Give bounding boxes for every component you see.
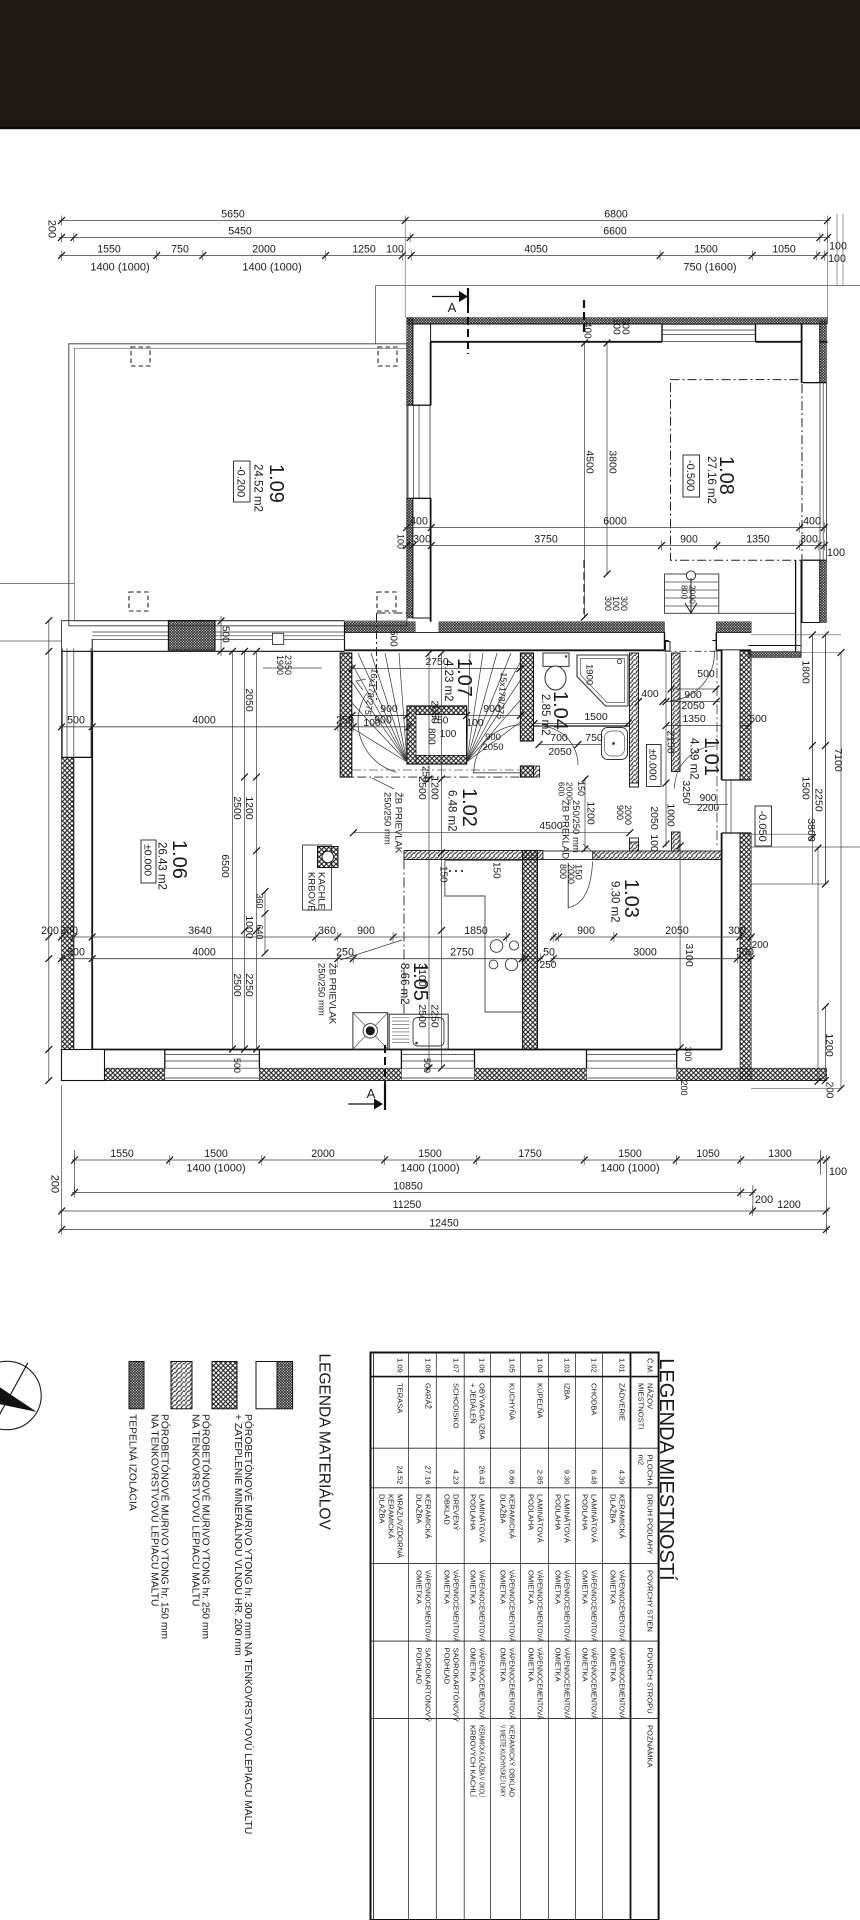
svg-text:OMIETKA: OMIETKA: [442, 1570, 451, 1605]
svg-text:1200: 1200: [585, 801, 597, 825]
fireplace stove: [318, 847, 339, 868]
stair door to 1.02 arc: [474, 725, 520, 773]
svg-text:1.05: 1.05: [508, 1358, 517, 1373]
compass needle line: [0, 1363, 28, 1421]
stairwell east wall upper: [520, 653, 533, 741]
south chain row2 500 4000 250 2750 50 250: [59, 958, 543, 960]
svg-text:400: 400: [410, 515, 428, 527]
svg-text:1.01: 1.01: [700, 737, 722, 776]
svg-text:1.08: 1.08: [423, 1358, 432, 1373]
garage carport dash-dot outline: [671, 380, 803, 561]
svg-text:KERAMICKÁ DLAŽBA V OKOLÍ: KERAMICKÁ DLAŽBA V OKOLÍ: [477, 1725, 486, 1798]
svg-text:KRBOVÝCH KACHLÍ: KRBOVÝCH KACHLÍ: [468, 1725, 477, 1798]
svg-text:9.30 m2: 9.30 m2: [608, 881, 620, 923]
svg-text:VÁPENNOCEMENTOVÁ: VÁPENNOCEMENTOVÁ: [508, 1570, 517, 1643]
basin nook door arc: [539, 726, 578, 765]
stairwell west wall: [340, 653, 352, 777]
svg-text:-0.200: -0.200: [235, 466, 247, 497]
svg-text:2050: 2050: [429, 700, 441, 724]
svg-text:1.04: 1.04: [549, 691, 571, 730]
svg-text:7100: 7100: [832, 748, 844, 772]
entry steps treads: [665, 574, 719, 613]
svg-text:OMIETKA: OMIETKA: [468, 1648, 477, 1683]
svg-text:1400 (1000): 1400 (1000): [90, 262, 149, 274]
svg-text:4050: 4050: [524, 243, 548, 255]
svg-text:LAMINÁTOVÁ: LAMINÁTOVÁ: [477, 1494, 486, 1544]
svg-text:900: 900: [357, 925, 375, 937]
svg-text:VÁPENNOCEMENTOVÁ: VÁPENNOCEMENTOVÁ: [423, 1570, 432, 1643]
stair treads right fan: [467, 653, 470, 762]
svg-text:9.30: 9.30: [563, 1470, 572, 1485]
garage east wall masonry: [802, 324, 820, 383]
washbasin: [602, 728, 628, 760]
svg-text:KERAMICKÁ: KERAMICKÁ: [423, 1494, 432, 1540]
svg-text:300: 300: [728, 925, 746, 937]
partition 1.04 south: [534, 726, 630, 731]
top dimension chain row3 1550 750 2000 1250 100 4050 1500 1050 100: [59, 255, 827, 257]
svg-text:m2: m2: [637, 1455, 646, 1466]
NW corner edge lines: [61, 621, 63, 649]
svg-text:±0.000: ±0.000: [647, 749, 659, 781]
svg-text:100: 100: [395, 534, 405, 549]
svg-text:NA TENKOVRSTVOVÚ LEPIACU MALTU: NA TENKOVRSTVOVÚ LEPIACU MALTU: [189, 1414, 202, 1606]
svg-text:VÁPENNOCEMENTOVÁ: VÁPENNOCEMENTOVÁ: [589, 1570, 598, 1643]
svg-text:VÁPENNOCEMENTOVÁ: VÁPENNOCEMENTOVÁ: [618, 1570, 627, 1643]
svg-text:750: 750: [171, 243, 189, 255]
partition 1.02/1.03: [593, 851, 722, 860]
svg-text:1.06: 1.06: [168, 840, 190, 879]
svg-text:6500: 6500: [219, 854, 231, 878]
svg-text:-0.500: -0.500: [684, 460, 696, 491]
svg-text:150: 150: [490, 862, 501, 879]
svg-text:MIESTNOSTI: MIESTNOSTI: [637, 1383, 646, 1429]
right edge connectors: [751, 634, 841, 636]
svg-text:A: A: [367, 1086, 376, 1101]
svg-text:500: 500: [67, 947, 85, 959]
south wall SW corner block: [62, 1050, 105, 1081]
stair walking line arc: [358, 692, 396, 772]
terrace post bottom-right: [377, 592, 396, 611]
svg-text:100: 100: [829, 1166, 847, 1178]
svg-text:OMIETKA: OMIETKA: [609, 1570, 618, 1605]
material swatch 1 wall+insulation: [256, 1362, 277, 1409]
bottom chain row2 10850 200: [72, 1192, 755, 1194]
svg-text:KERAMICKÝ OBKLAD: KERAMICKÝ OBKLAD: [508, 1725, 517, 1797]
garage north wall insulation: [407, 318, 828, 324]
svg-text:GARÁŽ: GARÁŽ: [423, 1383, 432, 1410]
svg-text:1.07: 1.07: [453, 658, 475, 697]
entry steps walk arrow: [690, 578, 692, 612]
svg-text:6.48: 6.48: [589, 1470, 598, 1485]
garage interior vertical dim 4500: [584, 342, 586, 619]
porch level box -0.050: [755, 806, 772, 846]
V2 dim lines: [441, 653, 443, 1068]
east wall insulation: [740, 652, 751, 781]
svg-text:V MIESTE KUCHYNSKEJ LINKY: V MIESTE KUCHYNSKEJ LINKY: [499, 1725, 508, 1797]
svg-text:POVRCH STROPU: POVRCH STROPU: [646, 1648, 655, 1714]
east wall entry door opening: [722, 779, 752, 781]
svg-text:IZBA: IZBA: [563, 1383, 572, 1401]
svg-text:OMIETKA: OMIETKA: [414, 1570, 423, 1605]
svg-text:OMIETKA: OMIETKA: [609, 1648, 618, 1683]
svg-text:6000: 6000: [603, 515, 627, 527]
entry door dashed sill: [665, 650, 717, 652]
svg-text:100: 100: [466, 717, 484, 729]
svg-text:3100: 3100: [683, 943, 695, 967]
svg-text:360: 360: [318, 925, 336, 937]
svg-text:OMIETKA: OMIETKA: [499, 1570, 508, 1605]
svg-text:4000: 4000: [192, 947, 216, 959]
svg-text:OMIETKA: OMIETKA: [580, 1570, 589, 1605]
svg-text:300: 300: [619, 318, 630, 335]
entry landing column circle: [686, 571, 695, 580]
svg-text:3800: 3800: [805, 818, 817, 842]
svg-text:100: 100: [386, 243, 404, 255]
svg-text:CHODBA: CHODBA: [589, 1383, 598, 1416]
fireplace label box: [303, 845, 332, 910]
svg-text:200: 200: [755, 1194, 773, 1206]
terrace post bottom-left: [129, 592, 148, 611]
svg-text:150: 150: [437, 866, 448, 883]
svg-text:1200: 1200: [243, 796, 255, 820]
svg-text:5650: 5650: [221, 208, 245, 220]
svg-text:2250: 2250: [429, 1004, 441, 1028]
svg-text:1350: 1350: [746, 533, 770, 545]
material swatch 3 ytong 150: [171, 1362, 192, 1409]
svg-text:SADROKARTÓNOVÝ: SADROKARTÓNOVÝ: [423, 1648, 432, 1723]
bottom chain row4 12450: [59, 1229, 829, 1231]
bottom chain row3 11250 1200: [59, 1210, 829, 1212]
svg-text:11250: 11250: [393, 1199, 422, 1211]
svg-text:200: 200: [679, 1080, 689, 1095]
garage interior chain 400 6000 400: [404, 527, 827, 529]
svg-text:MRAZUVZDORNÁ: MRAZUVZDORNÁ: [395, 1494, 404, 1559]
svg-text:PODHĽAD: PODHĽAD: [414, 1648, 423, 1685]
svg-text:1550: 1550: [97, 243, 121, 255]
svg-text:1400 (1000): 1400 (1000): [186, 1163, 245, 1175]
svg-text:PODLAHA: PODLAHA: [554, 1494, 563, 1531]
svg-text:500: 500: [697, 668, 715, 680]
svg-text:KERAMICKÁ: KERAMICKÁ: [508, 1494, 517, 1540]
svg-text:VÁPENNOCEMENTOVÁ: VÁPENNOCEMENTOVÁ: [618, 1648, 627, 1721]
svg-text:24.52 m2: 24.52 m2: [251, 464, 263, 512]
svg-text:2000: 2000: [311, 1148, 335, 1160]
top dimension chain row2 200 5450 6600 100: [59, 237, 830, 239]
wall 1.01 west lower stub: [672, 832, 681, 851]
dark header band: [0, 0, 860, 129]
svg-text:2350: 2350: [283, 655, 293, 675]
svg-text:1.03: 1.03: [563, 1358, 572, 1373]
section A-A trace in garage: [583, 300, 585, 336]
svg-text:OBKLAD: OBKLAD: [442, 1494, 451, 1525]
garage level box -0.500: [683, 455, 700, 497]
svg-text:OMIETKA: OMIETKA: [468, 1570, 477, 1605]
south window 1 sill lines: [165, 1054, 260, 1056]
shower tray: [577, 655, 628, 706]
terrace level box -0.200: [234, 461, 251, 502]
svg-text:2000: 2000: [623, 805, 633, 825]
svg-text:1550: 1550: [110, 1148, 134, 1160]
svg-text:POZNÁMKA: POZNÁMKA: [646, 1725, 655, 1769]
svg-text:150: 150: [576, 781, 586, 796]
svg-text:2150: 2150: [665, 730, 677, 754]
svg-text:Č.M.: Č.M.: [646, 1358, 655, 1374]
svg-text:VÁPENNOCEMENTOVÁ: VÁPENNOCEMENTOVÁ: [536, 1648, 545, 1721]
svg-text:NÁZOV: NÁZOV: [646, 1383, 655, 1410]
svg-text:OMIETKA: OMIETKA: [499, 1648, 508, 1683]
svg-text:KUCHYŇA: KUCHYŇA: [508, 1383, 517, 1421]
kitchen counter dots: [449, 870, 451, 872]
kitchen dash-dot beam west: [403, 860, 405, 1050]
svg-text:KERAMICKÁ: KERAMICKÁ: [386, 1494, 395, 1540]
svg-text:300: 300: [60, 925, 78, 937]
1.01 interior dim line 2150 1000 100: [665, 653, 667, 847]
south wall masonry band: [105, 1050, 165, 1069]
level box 1.06: [141, 840, 156, 883]
section mark A bottom: [348, 1103, 380, 1105]
right chains 1800 1500 2250 7100 3800 1200 200: [811, 635, 813, 838]
site boundary line top right: [375, 286, 377, 344]
svg-text:150: 150: [573, 864, 584, 880]
compass circle: [0, 1361, 41, 1429]
interior chain row 500 4000 250 900: [59, 726, 411, 728]
svg-text:2.85 m2: 2.85 m2: [539, 694, 551, 736]
svg-text:2000: 2000: [687, 585, 697, 604]
kitchen counter: [445, 860, 523, 1012]
svg-text:1500: 1500: [418, 1148, 442, 1160]
house north wall insulation band: [345, 622, 416, 633]
svg-text:DLAŽBA: DLAŽBA: [609, 1494, 618, 1524]
section trace dash-dot jog: [377, 612, 414, 614]
west wall insulation: [62, 757, 74, 1068]
svg-text:KRBOVÉ: KRBOVÉ: [306, 872, 317, 912]
dim 1200 vertical near 1.02: [584, 778, 586, 851]
svg-text:2050: 2050: [482, 742, 503, 753]
svg-text:1500: 1500: [694, 243, 718, 255]
svg-text:1500: 1500: [204, 1148, 228, 1160]
svg-text:VÁPENNOCEMENTOVÁ: VÁPENNOCEMENTOVÁ: [589, 1648, 598, 1721]
level box +-0.000: [647, 745, 662, 787]
svg-text:100: 100: [827, 547, 845, 559]
svg-text:2.85: 2.85: [536, 1470, 545, 1485]
svg-text:1.03: 1.03: [620, 879, 642, 918]
svg-text:4500: 4500: [539, 820, 563, 832]
svg-text:LAMINÁTOVÁ: LAMINÁTOVÁ: [536, 1494, 545, 1544]
svg-text:1.08: 1.08: [715, 456, 737, 495]
svg-text:700: 700: [550, 732, 568, 744]
property line west upper: [0, 583, 74, 585]
svg-text:300: 300: [413, 533, 431, 545]
svg-text:1.06: 1.06: [477, 1358, 486, 1373]
svg-text:OMIETKA: OMIETKA: [554, 1570, 563, 1605]
svg-text:1300: 1300: [768, 1148, 792, 1160]
svg-text:VÁPENNOCEMENTOVÁ: VÁPENNOCEMENTOVÁ: [563, 1570, 572, 1643]
svg-text:2000: 2000: [564, 782, 574, 801]
svg-text:6.48 m2: 6.48 m2: [445, 790, 457, 832]
svg-text:27.16 m2: 27.16 m2: [705, 456, 717, 504]
west wall masonry: [74, 757, 92, 1068]
material swatch 4 insulation: [129, 1362, 144, 1409]
bottom chain right extensions: [752, 1185, 754, 1214]
svg-text:ŽB PREKLAD: ŽB PREKLAD: [560, 800, 571, 859]
bathroom nook wall stub: [534, 766, 540, 777]
entry door swing arc: [670, 651, 715, 701]
svg-text:NA TENKOVRSTVOVÚ LEPIACU MALTU: NA TENKOVRSTVOVÚ LEPIACU MALTU: [148, 1414, 161, 1606]
porch wall strip north: [749, 652, 802, 658]
svg-text:PLOCHA: PLOCHA: [646, 1455, 655, 1487]
svg-text:LAMINÁTOVÁ: LAMINÁTOVÁ: [589, 1494, 598, 1544]
svg-text:900: 900: [374, 715, 392, 727]
svg-text:3750: 3750: [534, 533, 558, 545]
svg-text:2500: 2500: [231, 973, 243, 997]
entry door small dim 500: [670, 688, 718, 690]
svg-text:4.23: 4.23: [451, 1470, 460, 1485]
south chain row1 200 300 3640 360 900 1850: [59, 936, 509, 938]
svg-text:6800: 6800: [604, 208, 628, 220]
svg-text:2050: 2050: [548, 746, 572, 758]
kitchen load bearing wall 250: [523, 851, 538, 1050]
WC bowl: [545, 666, 566, 690]
kitchen dishwasher square: [353, 1013, 388, 1049]
svg-text:1500: 1500: [584, 711, 608, 723]
svg-text:VÁPENNOCEMENTOVÁ: VÁPENNOCEMENTOVÁ: [508, 1648, 517, 1721]
east wall masonry: [722, 650, 740, 780]
partition 1.04/1.01 vertical: [630, 653, 639, 787]
svg-text:KÚPEĽŇA: KÚPEĽŇA: [536, 1383, 545, 1419]
svg-text:900: 900: [577, 925, 595, 937]
svg-text:2050: 2050: [648, 806, 660, 830]
svg-text:24.52: 24.52: [395, 1465, 404, 1484]
garage east window: [819, 383, 821, 561]
svg-text:3800: 3800: [607, 450, 619, 474]
partition 1.02/1.01 vertical: [672, 653, 681, 772]
svg-text:500: 500: [736, 947, 754, 959]
north wall vent square: [273, 633, 284, 644]
svg-text:800: 800: [425, 728, 436, 745]
svg-text:ZÁDVERIE: ZÁDVERIE: [618, 1383, 627, 1421]
svg-text:OBÝVACIA IZBA: OBÝVACIA IZBA: [477, 1383, 486, 1441]
svg-text:3640: 3640: [188, 925, 212, 937]
svg-text:1200: 1200: [823, 1033, 835, 1057]
svg-text:26.43 m2: 26.43 m2: [155, 842, 167, 890]
left edge vertical chain: [48, 621, 50, 1081]
north glazed wall west segment: [61, 620, 344, 622]
property line west lower: [0, 640, 61, 642]
material swatch 2 ytong 250: [212, 1362, 237, 1409]
west wall window: [62, 648, 64, 757]
svg-text:1500: 1500: [618, 1148, 642, 1160]
terrace 1.09 outer edge: [69, 344, 407, 626]
V1 line 2500 6500: [244, 651, 246, 1049]
svg-text:DLAŽBA: DLAŽBA: [377, 1494, 386, 1524]
svg-text:PODLAHA: PODLAHA: [527, 1494, 536, 1531]
svg-text:ŽB PRIEVLAK: ŽB PRIEVLAK: [327, 963, 338, 1025]
svg-text:1350: 1350: [682, 713, 706, 725]
dim extension top right: [836, 214, 838, 286]
svg-text:1.04: 1.04: [536, 1358, 545, 1373]
svg-text:VÁPENNOCEMENTOVÁ: VÁPENNOCEMENTOVÁ: [451, 1570, 460, 1643]
svg-text:1.01: 1.01: [618, 1358, 627, 1373]
svg-text:5450: 5450: [228, 225, 252, 237]
kitchen hob circles: [490, 940, 503, 953]
section mark A top: [432, 296, 466, 298]
compass needle black: [0, 1387, 37, 1412]
svg-text:8.66: 8.66: [508, 1470, 517, 1485]
svg-text:100: 100: [648, 834, 660, 852]
svg-text:A: A: [448, 300, 457, 315]
svg-text:VÁPENNOCEMENTOVÁ: VÁPENNOCEMENTOVÁ: [536, 1570, 545, 1643]
svg-text:SCHODISKO: SCHODISKO: [451, 1383, 460, 1429]
svg-text:200: 200: [752, 940, 769, 951]
svg-text:1850: 1850: [464, 925, 488, 937]
terrace post top-right: [378, 347, 397, 366]
bottom chain left vertical: [61, 1085, 63, 1232]
svg-text:300: 300: [800, 533, 818, 545]
svg-text:2250: 2250: [243, 973, 255, 997]
svg-text:750 (1600): 750 (1600): [683, 262, 736, 274]
svg-text:1400 (1000): 1400 (1000): [400, 1163, 459, 1175]
svg-text:SADROKARTÓNOVÝ: SADROKARTÓNOVÝ: [451, 1648, 460, 1723]
entry door recess jambs: [664, 632, 666, 650]
south wall insulation band: [62, 1068, 165, 1080]
svg-text:DREVENÝ: DREVENÝ: [451, 1494, 460, 1531]
interior chain row2 pieces: [352, 715, 407, 717]
svg-text:250/250 mm: 250/250 mm: [570, 800, 581, 853]
svg-text:ŽB PRIEVLAK: ŽB PRIEVLAK: [393, 792, 404, 854]
svg-text:300: 300: [683, 1046, 693, 1061]
table grid: [371, 1353, 659, 1920]
garage north wall masonry: [413, 324, 431, 342]
svg-text:900: 900: [380, 703, 398, 715]
svg-text:±0.000: ±0.000: [142, 844, 154, 876]
svg-text:500: 500: [67, 715, 85, 727]
porch wall east line: [795, 560, 797, 651]
svg-text:TERASA: TERASA: [395, 1383, 404, 1414]
svg-text:3000: 3000: [633, 947, 657, 959]
svg-text:1.07: 1.07: [451, 1358, 460, 1373]
svg-text:+ ZATEPLENIE MINERÁLNOU VLNOU: + ZATEPLENIE MINERÁLNOU VLNOU HR. 200 mm: [232, 1414, 245, 1656]
south chain row1 east 900 2050 300: [551, 936, 754, 938]
svg-text:1250: 1250: [352, 243, 376, 255]
svg-text:26.43: 26.43: [477, 1465, 486, 1484]
door 1.02-1.01 jambs and labels: [630, 783, 639, 787]
svg-text:2500: 2500: [231, 796, 243, 820]
garage east wall insulation: [820, 321, 827, 383]
kitchen sink unit: [389, 1014, 448, 1049]
svg-text:250: 250: [540, 960, 557, 971]
svg-text:2500: 2500: [416, 776, 428, 800]
svg-text:OMIETKA: OMIETKA: [580, 1648, 589, 1683]
garage west window 1500: [407, 405, 409, 498]
svg-text:1400 (1000): 1400 (1000): [242, 262, 301, 274]
top dimension chain row1 5650 6800: [59, 220, 830, 222]
1.03 door opening and arc: [543, 850, 593, 852]
stair bottom dash-dot beam: [340, 776, 533, 778]
svg-text:2750: 2750: [450, 947, 474, 959]
svg-text:1.09: 1.09: [265, 464, 287, 503]
svg-text:POVRCHY STIEN: POVRCHY STIEN: [646, 1570, 655, 1632]
svg-text:1200: 1200: [429, 776, 441, 800]
svg-text:500: 500: [387, 630, 398, 647]
fireplace dims 360 640: [264, 892, 266, 954]
svg-text:900: 900: [680, 533, 698, 545]
svg-text:1200: 1200: [777, 1199, 801, 1211]
svg-text:DRUH PODLAHY: DRUH PODLAHY: [646, 1494, 655, 1554]
terrace 1.09 inner edge: [74, 348, 407, 621]
svg-text:OMIETKA: OMIETKA: [554, 1648, 563, 1683]
svg-text:360: 360: [254, 893, 264, 908]
terrace post top-left: [131, 347, 150, 366]
